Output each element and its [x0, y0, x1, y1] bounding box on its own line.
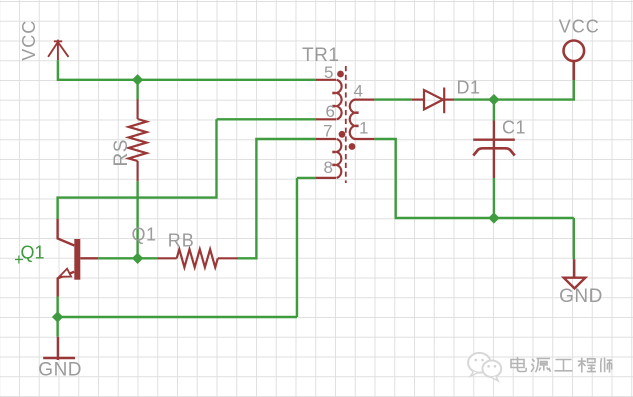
wire junction to RS: [136, 80, 138, 100]
pin 4 stub: [354, 98, 374, 100]
winding 7-8: [337, 139, 342, 178]
程: [578, 358, 596, 373]
wire RB to TR1 pin 7: [238, 139, 316, 258]
ground GND (right): [564, 259, 586, 288]
wire bottom-left rail: [58, 316, 297, 318]
winding 4-1 (secondary): [350, 100, 355, 139]
wire rail to GND (right): [573, 218, 575, 259]
电: [511, 357, 526, 372]
power symbol VCC (right): [564, 41, 585, 81]
wire TR1 pin 6 horizontal: [217, 118, 317, 120]
wire TR1 pin 8 vertical: [296, 178, 298, 317]
pin 7 stub: [316, 138, 336, 140]
wire C1 to bottom-right rail: [493, 178, 495, 218]
watermark logo (WeChat bubbles): [468, 353, 501, 381]
wire TR1 pin 1 to bottom-right rail: [374, 139, 573, 218]
winding 5-6: [337, 80, 342, 120]
pin 8 stub: [316, 177, 336, 179]
polarity dot pin 5: [337, 71, 344, 78]
Q1 origin cross: [15, 256, 23, 264]
wire TR1 pin 6 to Q1 collector: [58, 119, 217, 219]
svg-text:Q1: Q1: [132, 225, 157, 245]
svg-text:TR1: TR1: [302, 45, 339, 66]
wire net VCC-left rail: [58, 60, 316, 80]
svg-text:VCC: VCC: [559, 17, 600, 37]
resistor RS: [129, 99, 147, 181]
wire junction to C1: [493, 100, 495, 121]
pin 5 stub: [316, 79, 336, 81]
svg-text:RS: RS: [111, 139, 132, 166]
工: [555, 360, 573, 371]
resistor RB: [157, 249, 238, 267]
svg-text:1: 1: [359, 119, 368, 138]
ground GND (left): [43, 337, 75, 360]
winding cusp nubs: [332, 92, 335, 95]
transformer TR1: [316, 66, 374, 183]
junction at RS top: [132, 74, 143, 85]
svg-text:7: 7: [323, 122, 332, 141]
diode D1: [412, 88, 454, 114]
wire Q1 emitter to junction: [56, 296, 58, 317]
core dashed line: [345, 66, 347, 183]
pin 6 stub: [316, 118, 336, 120]
power symbol VCC (left): [48, 40, 68, 61]
svg-text:GND: GND: [38, 360, 82, 381]
svg-text:Q1: Q1: [21, 243, 45, 263]
junction at D1 / C1: [488, 94, 499, 105]
svg-text:C1: C1: [502, 118, 526, 138]
svg-text:VCC: VCC: [19, 20, 39, 61]
wire Q1 base to RB: [98, 257, 157, 259]
svg-text:5: 5: [324, 63, 333, 82]
wire RS to base junction: [136, 181, 138, 258]
wire D1 to junction to VCC (right): [454, 80, 574, 100]
svg-text:D1: D1: [457, 78, 481, 98]
源: [531, 359, 550, 373]
capacitor C1 (polarized): [473, 121, 515, 179]
transistor Q1: [58, 219, 99, 297]
svg-text:8: 8: [324, 158, 333, 177]
polarity dot pin 1: [349, 143, 356, 150]
svg-text:RB: RB: [168, 231, 195, 251]
wire TR1 pin 8 stub wire: [297, 177, 316, 179]
wire TR1 pin 4 to D1: [374, 98, 412, 100]
svg-text:6: 6: [326, 102, 335, 121]
svg-text:GND: GND: [559, 286, 603, 307]
师: [601, 358, 612, 373]
junction at emitter / bottom rail: [52, 311, 63, 322]
watermark text 电源工程师: [511, 357, 612, 373]
pin 1 stub: [354, 138, 374, 140]
wire junction to GND (left): [56, 317, 58, 337]
junction at Q1 base: [132, 253, 143, 264]
junction at C1 bottom: [488, 212, 499, 223]
polarity dot pin 7: [339, 131, 346, 138]
svg-text:4: 4: [354, 82, 363, 101]
